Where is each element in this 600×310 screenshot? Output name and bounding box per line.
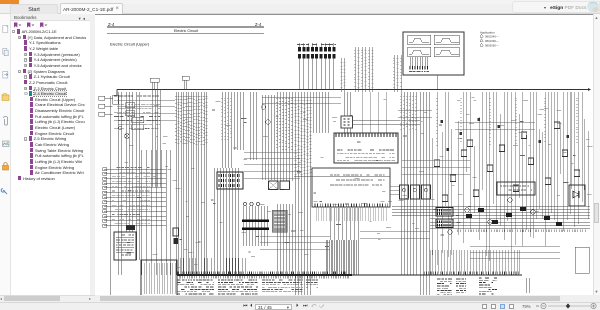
panel icon: folder yellow [2,94,9,101]
panel icon: page [3,26,8,33]
legend waveform sub-box 2 [434,35,459,45]
band extra ticks [458,230,585,233]
Start tab [10,4,58,14]
bottom feeders right part [430,250,520,274]
wire bundle N [296,92,311,297]
header rule top [107,26,264,28]
bus left end drop [116,90,118,97]
svg-text:Electric Circuit (Upper): Electric Circuit (Upper) [110,42,150,47]
right wire bundle T3 [458,92,463,243]
sidebar horizontal scrollbar [0,295,95,302]
connector block CN-2 [217,172,243,189]
ECU to relays wires [390,186,399,194]
right wire bundle T14 [584,119,588,219]
diode box D1 [569,185,585,206]
page number box [255,304,292,310]
relay K1 [126,103,135,108]
wire bundle E [153,90,161,188]
bundle N cross link [294,176,390,178]
mid horizontal links [244,152,300,178]
pin block gray [272,210,287,232]
left row labels [112,168,150,224]
panel icon: wrench [1,189,7,195]
wire bundle B [126,92,132,232]
bottom text block 3 [262,280,303,292]
bookmarks tree [12,29,57,34]
document tab [60,3,123,14]
right wire bundle T8 [522,92,530,246]
ECU internal text [337,150,395,161]
bookmarks header [11,14,90,21]
ECU top connector cells [336,134,396,138]
ECU lower bottom pins [315,204,388,207]
bundle Z feeders [330,208,358,240]
header rule bottom [107,33,264,35]
relay boxes row [400,185,409,199]
contact bar 2 [242,228,269,231]
inline dark devices right [440,120,443,123]
contact bank verticals [244,206,268,246]
right wire bundle T2 [448,92,451,257]
top ribbon strip [0,0,600,4]
zoom percent [522,304,531,309]
ECU box lower [312,168,390,207]
risers to relay Q [342,58,345,92]
right wire bundle T6 [496,92,504,240]
wire bundle L [262,95,274,180]
relay K4 [132,125,144,130]
left icon strip [0,14,11,295]
eSign PDF Docs button [512,1,600,13]
canvas horizontal scrollbar [95,295,600,302]
panel icon: pages [3,49,8,56]
wire bundle C [137,92,140,260]
bookmarks tool icon 1 [14,23,21,28]
bottom text block 7 [479,278,497,294]
wires above ECU [362,92,386,133]
relay K2 [126,111,135,116]
bottom bus lower ticks [180,276,348,279]
connector CN-1 label [297,44,336,46]
bottom text block 6 [456,279,466,293]
wire bundle J [234,92,243,150]
left labels noise [114,96,160,129]
riser group R1 [152,82,157,90]
right wire bundle T11 [467,92,583,204]
zoom controls [535,302,597,310]
schematic drawing [95,15,593,295]
wire bundle D descenders [142,150,171,275]
ECU lower inner labels [330,175,385,185]
wire bundle I [222,92,231,168]
main bus line [117,89,590,91]
contact bar 1 [242,220,269,223]
right bundles labels [436,98,578,145]
svg-text:Z-4: Z-4 [108,22,115,27]
orange file button fragment [0,0,19,4]
layout icons [482,304,487,310]
riser group R2 [184,80,187,90]
junction box JB1 [141,260,177,297]
legend waveform sub-box 1 [408,35,431,45]
wire bundle M [277,92,292,181]
connector CN-1 row B [298,54,301,59]
bottom text block 2 [218,280,258,296]
tall label box right [575,247,589,273]
connector CN-1 row A [298,47,301,52]
bottom text block 4 [306,280,318,287]
relay block Q [341,116,353,128]
legend waveform sub-box 3 [408,47,431,57]
lamp L2 [118,126,122,130]
wire bundle A [119,92,122,275]
ECU box upper [334,133,398,163]
bottom text block 5 [437,279,452,295]
fuse box F1 [113,95,119,104]
upper horizontal links [117,100,175,120]
panel icon: lock orange [3,163,9,170]
right wire bundle T1 [432,92,442,265]
left edge wire [110,96,112,295]
band device box [497,182,535,195]
terminal blocks left edge [99,96,105,100]
bookmarks panel [11,14,90,295]
bookmarks tool icon 2 [27,23,34,28]
bundle N labels [294,100,311,175]
legend drop wire [436,75,438,90]
connector CN-1 leads down [300,59,334,90]
application note row 3 [480,43,483,46]
component circle M1 [261,105,265,109]
wire name labels noise [119,97,593,268]
right wire bundle T5 [486,92,489,261]
small device bottom-left B [173,228,179,236]
band extension wires [392,206,430,216]
vertical scrollbar thumb [594,203,599,223]
ECU lower drops [316,207,386,221]
wire bundle R [401,92,416,275]
wire bundle G [214,168,238,275]
relay box RB1 [114,232,136,260]
legend waveform sub-box 4 [434,47,459,57]
wire bundle F dense [176,92,207,275]
bottom right wire pair [526,278,530,293]
wire bundle Z dense [326,240,358,275]
band connector grid B [436,219,453,228]
band small connectors [466,214,472,218]
terminal circles T1 T2 T3 [243,202,246,205]
svg-text:0801040—: 0801040— [485,35,499,39]
bookmarks tool icon 3 [40,23,47,28]
legend connector pins [410,57,428,66]
wire bundle O [314,92,329,133]
bundle F wire labels [175,96,208,145]
bottom text block 1 [177,280,214,296]
svg-text:Z-4: Z-4 [255,22,262,27]
bundle R labels [400,96,417,130]
device circles right [465,208,470,213]
right bus band [430,206,590,228]
wire bundle K [250,92,256,160]
bottom bus heavy [177,274,352,276]
legend pin row [409,71,429,73]
main canvas background [95,14,600,295]
status bar [0,302,600,310]
connector CN-1 leads up [300,43,334,47]
svg-text:0803060—: 0803060— [485,44,499,48]
right wire bundle T9 [536,92,557,246]
tab bar [0,4,600,14]
small device bottom-left A [126,226,135,231]
component circle M2 [266,120,270,124]
bookmarks toolbar [11,21,90,29]
PDF page [95,15,593,295]
bundle M labels [276,98,293,150]
svg-text:Electric Circuit: Electric Circuit [174,29,199,33]
vertical scrollbar [593,14,600,295]
right wire bundle T10 [446,92,571,238]
left horizontal wire rows [104,169,166,225]
eSign logo blob [584,0,600,14]
right wire bundle T12 [563,92,567,231]
inline device boxes right [434,160,439,167]
svg-text:0801090—: 0801090— [485,39,499,43]
panel icon: paperclip [4,117,8,126]
wire bundle S [421,92,430,297]
bundle I labels [221,98,232,140]
bottom bus ticks [178,272,348,275]
lamp L1 [125,134,130,139]
right wire bundle T4 [470,92,479,240]
legend left wires [355,47,373,92]
right wire bundle T13 [574,92,578,227]
band connector grid A [436,208,453,217]
application note row 1 [480,34,483,37]
relay K3 [132,118,144,123]
right wire bundle T7 [511,92,515,251]
panel icon: export [3,72,8,79]
panel icon: image [3,141,10,147]
first page nav [243,303,248,309]
relay cluster boxes [269,181,279,190]
bottom feeders into bus [180,258,245,275]
legend box frame [403,32,464,75]
application note row 2 [480,39,483,42]
legend left wire labels [354,50,374,87]
